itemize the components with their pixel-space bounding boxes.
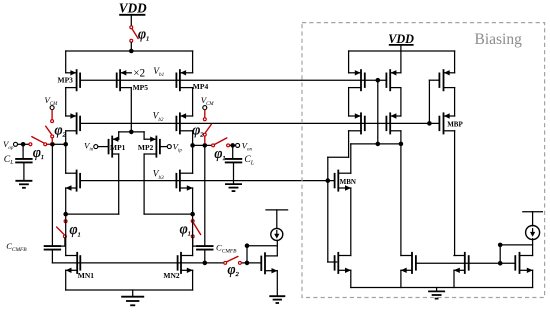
label Vb3: [153, 170, 164, 181]
wire out right to CMFB cap: [204, 145, 206, 246]
label VCM left: [44, 95, 58, 107]
wire out left to CMFB cap: [51, 144, 53, 246]
transistor CMFB diode NMOS: [261, 252, 277, 274]
wire Vb1 gate rail: [80, 79, 386, 81]
wire casc NMOS right drain: [192, 145, 194, 173]
label MN1: [78, 271, 94, 280]
transistor cascode NMOS right: [176, 170, 192, 192]
terminal VCM left: [50, 106, 54, 110]
svg-text:VDD: VDD: [388, 32, 414, 46]
terminal VCM right: [203, 106, 207, 110]
wire CMFB left cap to gate rail: [51, 250, 53, 263]
wire fold left: [66, 213, 119, 215]
svg-text:Vip: Vip: [173, 141, 183, 153]
svg-text:CL: CL: [244, 154, 254, 166]
net VDD (biasing label): [388, 32, 414, 46]
node output left mid: [50, 142, 55, 147]
wire N4 source: [532, 270, 534, 287]
wire N2 source: [400, 270, 402, 287]
wire casc NMOS left source: [65, 188, 67, 214]
label x2: [133, 68, 145, 80]
wire Vop to node: [18, 143, 31, 145]
wire out left to branch: [52, 143, 65, 145]
svg-text:MN2: MN2: [163, 271, 179, 280]
label MP2: [138, 143, 154, 152]
wire MN gate rail: [52, 262, 261, 264]
wire MP1 drain down: [118, 154, 120, 214]
wire biasing supply rail: [349, 51, 455, 73]
terminal Vip: [160, 145, 171, 149]
label Vip: [173, 141, 183, 153]
supply T-bar (CMFB current source): [266, 210, 288, 229]
wire VCM left lead: [51, 110, 53, 120]
wire top rail: [66, 51, 193, 73]
label CCMFB right: [216, 242, 237, 254]
switch phi1 (supply): [130, 26, 138, 51]
label Vb2: [153, 112, 164, 123]
wire CMFB left sw to cap: [61, 245, 65, 247]
wire tail horizontals: [119, 132, 144, 139]
wire casc NMOS right source: [192, 188, 194, 214]
current source CMFB: [271, 228, 283, 240]
transistor cascode NMOS left: [66, 170, 81, 192]
label phi1 (supply switch): [138, 27, 149, 43]
label MBP: [447, 120, 463, 128]
wire N3 source: [453, 270, 455, 287]
wire VCM right lead: [204, 110, 206, 118]
wire VDD stem: [130, 16, 132, 26]
wire cascode left drain to out: [65, 131, 67, 145]
svg-text:MBN: MBN: [340, 178, 356, 186]
label CL left: [4, 154, 14, 166]
svg-text:MP1: MP1: [110, 143, 126, 152]
ground CMFB diode: [269, 296, 285, 303]
label CCMFB left: [6, 241, 27, 253]
node out right CMFB tap: [203, 143, 208, 148]
wire MBN gate vert to N1 gate: [328, 181, 337, 262]
transistor MP4: [176, 69, 192, 91]
svg-text:φ1: φ1: [138, 27, 149, 43]
wire A1 drain to A2: [348, 88, 350, 116]
node Vb1 diode tap: [376, 78, 381, 83]
label phi1 (output left): [33, 145, 44, 161]
wire MN1 source: [65, 270, 67, 290]
wire MN2 drain: [192, 220, 194, 255]
wire C1 gate to Vb2: [429, 80, 439, 123]
node MBN drain to Vb1 vert: [376, 142, 381, 147]
ground biasing: [428, 288, 445, 299]
wire Vb3 gate rail to biasing: [80, 180, 334, 182]
label MBN: [340, 178, 356, 186]
wire N1 source: [350, 270, 352, 287]
node CMFB right on gate rail: [203, 261, 208, 266]
label MN2: [163, 271, 179, 280]
svg-text:VCM: VCM: [201, 95, 215, 107]
label Vop: [3, 139, 14, 151]
label Vb1: [153, 67, 164, 78]
transistor MP5 (x2 tail): [117, 69, 132, 91]
label VCM right: [201, 95, 215, 107]
svg-text:Biasing: Biasing: [475, 31, 523, 48]
capacitor CCMFB left: [44, 246, 61, 250]
svg-text:MP3: MP3: [58, 75, 74, 84]
label MP3: [58, 75, 74, 84]
node C1 gate on Vb2 rail: [427, 121, 432, 126]
transistor bias NMOS N4: [515, 252, 533, 274]
transistor cascode PMOS right: [176, 112, 192, 134]
label Biasing: [475, 31, 523, 48]
wire CMFB right cap to gate rail: [204, 250, 206, 263]
node diode gate junction: [245, 261, 250, 266]
node N4 diode top: [498, 243, 503, 248]
label phi2 (VCM right): [192, 122, 204, 138]
capacitor CCMFB right: [196, 246, 213, 250]
wire fold right: [144, 213, 193, 215]
ground CL right: [225, 162, 242, 191]
transistor bias PMOS A2: [349, 112, 365, 134]
svg-text:MN1: MN1: [78, 271, 94, 280]
wire bias isrc to N4 drain: [532, 239, 534, 256]
wire B1 drain to B2: [400, 88, 402, 116]
node output right branch: [190, 143, 195, 148]
label phi1 (CMFB left): [69, 222, 80, 238]
switch phi2 (VCM right): [203, 118, 211, 143]
wire B2 drain down to N2: [400, 131, 402, 256]
switch phi2 (CMFB sample): [224, 256, 242, 264]
wire CMFB right sw to cap: [193, 245, 198, 247]
transistor MBN: [335, 170, 351, 192]
transistor MN2: [178, 252, 193, 274]
label Vin: [84, 140, 94, 152]
node branch B mid join: [399, 142, 404, 147]
node output left branch: [63, 142, 68, 147]
transistor bias PMOS C1: [439, 69, 454, 91]
ground CL left: [15, 162, 32, 187]
node CL left tap: [21, 142, 26, 147]
svg-text:×2: ×2: [133, 68, 145, 80]
svg-text:φ2: φ2: [227, 262, 239, 278]
svg-text:MP5: MP5: [133, 83, 149, 92]
transistor MBP: [439, 112, 454, 134]
wire diode source to gnd: [276, 271, 278, 296]
wire MBP drain down to N3: [454, 131, 456, 256]
label phi1 (CMFB right): [180, 221, 191, 237]
node tail junction: [129, 130, 134, 135]
svg-text:MP2: MP2: [138, 143, 154, 152]
switch phi2 (VCM left): [46, 120, 54, 143]
svg-text:Vin: Vin: [84, 140, 94, 152]
wire N4 diode loop: [500, 245, 532, 263]
net VDD (main supply label): [119, 1, 147, 16]
label phi2 (CMFB sample): [227, 262, 239, 278]
svg-text:CCMFB: CCMFB: [6, 241, 27, 253]
svg-text:φ2: φ2: [54, 122, 66, 138]
switch phi1 (CMFB left): [57, 214, 67, 246]
biasing block dashed frame: [302, 23, 545, 298]
wire MBN source down: [350, 188, 352, 256]
svg-text:φ1: φ1: [69, 222, 80, 238]
switch phi1 (CMFB right): [191, 214, 200, 246]
node top rail junction: [129, 49, 134, 54]
wire C1 drain to MBP: [454, 88, 456, 116]
transistor MP3: [66, 69, 80, 91]
wire bias NMOS gate rail: [416, 262, 515, 264]
wire Vb2 gate rail: [80, 122, 438, 124]
node fold right: [190, 212, 195, 217]
transistor bias PMOS B2: [386, 112, 401, 134]
svg-text:φ1: φ1: [214, 146, 225, 162]
terminal Vop: [14, 142, 18, 146]
supply T-bar (bias current source): [523, 212, 543, 226]
svg-text:φ2: φ2: [192, 122, 204, 138]
label phi1 (output right): [214, 146, 225, 162]
capacitor CL right: [225, 145, 242, 162]
transistor MP1: [109, 136, 119, 158]
label MP4: [193, 82, 209, 91]
wire bias ground rail: [351, 287, 533, 289]
wire casc NMOS left drain: [65, 144, 67, 173]
node N4 diode gate tap: [498, 261, 503, 266]
svg-text:MBP: MBP: [447, 120, 463, 128]
wire diode drain link: [247, 240, 277, 255]
wire cascode right drain to out: [192, 131, 194, 146]
terminal Von: [236, 143, 240, 147]
transistor bias PMOS B1: [386, 69, 401, 91]
switch phi1 (output right): [212, 138, 230, 147]
node diode drain junction: [245, 243, 250, 248]
transistor bias NMOS N1: [335, 252, 351, 274]
wire MN2 source: [192, 270, 194, 290]
node CL right tap: [230, 143, 235, 148]
svg-text:MP4: MP4: [193, 82, 209, 91]
terminal Vin: [94, 145, 109, 149]
wire MBN drain up: [351, 144, 401, 173]
label MP5: [133, 83, 149, 92]
wire MP3 drain to cascode: [65, 88, 67, 116]
wire diode gate up: [246, 246, 248, 263]
wire main ground rail: [66, 289, 193, 291]
svg-text:φ1: φ1: [33, 145, 44, 161]
wire Vb1 diode vertical: [377, 80, 379, 144]
svg-text:CCMFB: CCMFB: [216, 242, 237, 254]
svg-text:Von: Von: [242, 140, 253, 152]
transistor bias NMOS N2: [401, 252, 416, 274]
label Von: [242, 140, 253, 152]
switch phi1 (output left): [29, 137, 50, 146]
wire out right rail: [193, 144, 236, 146]
transistor MP2: [144, 136, 160, 158]
ground main: [121, 290, 144, 305]
wire MP5 drain to tail node: [130, 88, 132, 132]
current source bias: [526, 226, 540, 240]
wire MP4 drain to cascode: [192, 88, 194, 116]
transistor MN1: [66, 252, 81, 274]
label MP1: [110, 143, 126, 152]
svg-text:CL: CL: [4, 154, 14, 166]
transistor bias PMOS A1: [349, 69, 365, 91]
svg-text:VCM: VCM: [44, 95, 58, 107]
wire A2 drain jog to MBN gate: [328, 131, 349, 181]
svg-text:Vb1: Vb1: [153, 67, 164, 78]
svg-text:Vop: Vop: [3, 139, 14, 151]
transistor bias NMOS N3: [454, 252, 469, 274]
svg-text:Vb2: Vb2: [153, 112, 164, 123]
wire MP2 drain down: [143, 154, 145, 214]
label phi2 (VCM left): [54, 122, 66, 138]
node MBN gate junction: [326, 178, 331, 183]
node fold left: [63, 212, 68, 217]
svg-text:φ1: φ1: [180, 221, 191, 237]
label CL right: [244, 154, 254, 166]
wire MN1 drain: [65, 220, 67, 255]
wire biasing VDD stem: [400, 46, 402, 52]
transistor cascode PMOS left: [66, 112, 80, 134]
svg-text:Vb3: Vb3: [153, 170, 164, 181]
capacitor CL left: [15, 144, 32, 162]
svg-text:VDD: VDD: [119, 1, 147, 16]
